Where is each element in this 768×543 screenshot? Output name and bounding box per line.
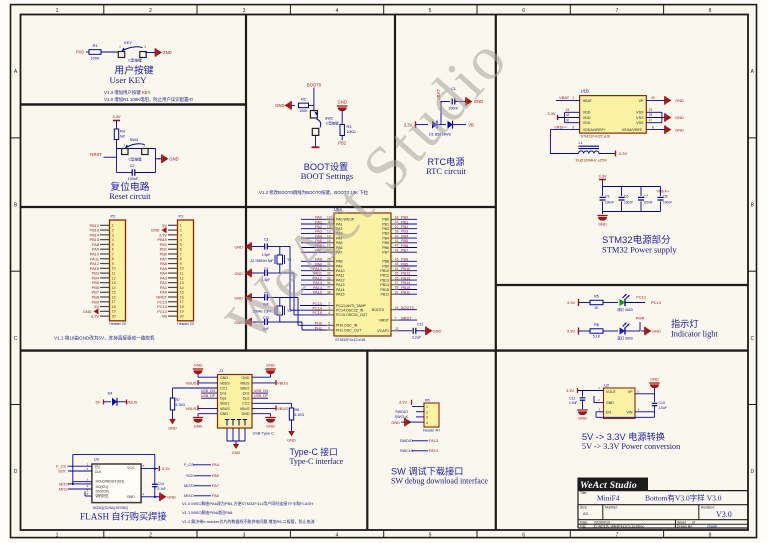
- svg-text:2: 2: [180, 228, 182, 232]
- svg-text:PB10: PB10: [401, 267, 410, 271]
- wire D4 to VBUS: [117, 401, 126, 403]
- svg-text:VREF+: VREF+: [554, 124, 568, 129]
- svg-text:43: 43: [395, 248, 399, 252]
- svg-text:3: 3: [243, 8, 246, 14]
- wire GND to R3: [341, 111, 343, 125]
- power symbol GND (C9): [253, 297, 265, 299]
- svg-text:4: 4: [180, 238, 182, 242]
- svg-text:1: 1: [56, 8, 59, 14]
- svg-text:48: 48: [566, 113, 570, 117]
- svg-text:D: D: [750, 469, 754, 475]
- svg-text:4: 4: [426, 421, 428, 425]
- svg-text:100nF: 100nF: [624, 201, 633, 205]
- svg-text:GND: GND: [578, 417, 587, 421]
- ic U5A left pin group PA0-PA7: [327, 218, 335, 220]
- svg-text:22: 22: [395, 327, 399, 331]
- wire cap bank top bus: [602, 180, 604, 197]
- svg-text:PB12: PB12: [401, 272, 410, 276]
- svg-text:Dn2: Dn2: [243, 392, 250, 396]
- svg-text:7: 7: [616, 532, 619, 538]
- wire to R5: [579, 302, 590, 304]
- svg-text:GND: GND: [162, 50, 171, 55]
- svg-text:VBUS: VBUS: [186, 406, 197, 411]
- svg-text:PA11: PA11: [336, 274, 344, 278]
- svg-text:VDD: VDD: [583, 116, 591, 120]
- svg-text:DO(IO1): DO(IO1): [96, 485, 108, 489]
- svg-text:C6: C6: [624, 195, 628, 199]
- svg-text:1.0uF: 1.0uF: [569, 401, 577, 405]
- svg-text:R1: R1: [92, 43, 98, 48]
- svg-text:C: C: [750, 336, 754, 342]
- svg-text:VBUS: VBUS: [277, 380, 288, 385]
- svg-text:PB15: PB15: [401, 286, 410, 290]
- wire 3.3V to R4: [116, 121, 118, 130]
- svg-text:V1.0 MISO脚由PA6改为PB4,方便STM32F41: V1.0 MISO脚由PA6改为PB4,方便STM32F411用户同时连接TF卡…: [182, 500, 313, 506]
- svg-text:4: 4: [336, 532, 339, 538]
- svg-text:U2: U2: [604, 383, 610, 388]
- svg-text:1: 1: [572, 96, 574, 100]
- power symbol GND (C3): [253, 246, 265, 248]
- svg-text:3: 3: [112, 233, 114, 237]
- wire reset loop right: [155, 149, 157, 173]
- resistor R5: [590, 300, 603, 304]
- svg-text:PB14: PB14: [401, 281, 410, 285]
- svg-text:12: 12: [112, 276, 116, 280]
- svg-text:9: 9: [112, 262, 114, 266]
- svg-text:PB5: PB5: [401, 239, 408, 243]
- svg-text:C3: C3: [264, 238, 269, 242]
- svg-text:SW3: SW3: [130, 138, 138, 142]
- svg-text:20: 20: [112, 315, 116, 319]
- wire R8 to GND: [291, 420, 293, 431]
- wire GND right row: [252, 376, 271, 378]
- svg-text:Title:: Title:: [580, 491, 587, 495]
- svg-text:GND: GND: [242, 376, 250, 380]
- svg-text:42: 42: [395, 244, 399, 248]
- resistor R3: [340, 125, 344, 136]
- svg-text:PC13: PC13: [636, 296, 646, 300]
- capacitor C12 reg: [582, 391, 584, 397]
- pin 8 VSSA wire: [646, 129, 663, 131]
- wire R7 to GND: [172, 410, 174, 419]
- svg-text:PA12: PA12: [336, 278, 345, 282]
- svg-text:PC15.OSC32_OUT: PC15.OSC32_OUT: [336, 313, 368, 317]
- svg-text:C14: C14: [158, 482, 164, 486]
- svg-text:WP(IO2): WP(IO2): [96, 494, 109, 498]
- svg-text:100nF: 100nF: [128, 177, 139, 181]
- switch SW3: [122, 149, 128, 155]
- svg-text:18: 18: [180, 305, 184, 309]
- capacitor C2: [131, 169, 133, 176]
- svg-text:GND: GND: [675, 127, 684, 132]
- wire loop to GND: [156, 158, 161, 160]
- wire VREF+ down to L1: [549, 130, 551, 154]
- wire R4 down to loop: [116, 140, 118, 149]
- svg-text:Header 4H: Header 4H: [423, 429, 440, 433]
- wire CC1 to R7: [173, 387, 218, 389]
- wire GND pin2: [594, 402, 604, 404]
- svg-text:2: 2: [112, 228, 114, 232]
- svg-text:F_CS: F_CS: [184, 463, 194, 467]
- svg-text:PB6: PB6: [401, 244, 408, 248]
- svg-text:36: 36: [566, 118, 570, 122]
- svg-text:5: 5: [180, 243, 182, 247]
- power symbol GND (reset): [161, 155, 163, 163]
- svg-text:P6: P6: [425, 399, 430, 403]
- section divider: vertical between BOOT and RTC: [394, 15, 396, 208]
- svg-text:11: 11: [112, 272, 116, 276]
- svg-text:12: 12: [180, 276, 184, 280]
- svg-text:2.2uF: 2.2uF: [412, 336, 422, 340]
- svg-text:GND: GND: [127, 495, 135, 499]
- svg-text:6: 6: [328, 326, 330, 330]
- svg-text:GND: GND: [391, 420, 400, 425]
- svg-text:100nF: 100nF: [644, 201, 653, 205]
- svg-text:NRST: NRST: [401, 316, 412, 320]
- svg-text:5: 5: [328, 322, 330, 326]
- svg-text:PH0.OSC_IN: PH0.OSC_IN: [336, 324, 358, 328]
- wire PA0 to R1: [86, 51, 89, 53]
- svg-text:PC13.ANTI_TAMP: PC13.ANTI_TAMP: [336, 304, 366, 308]
- power symbol GND (led2): [644, 327, 646, 335]
- svg-text:C2: C2: [130, 164, 135, 168]
- power symbol GND (R8): [288, 431, 294, 437]
- svg-text:19: 19: [180, 310, 184, 314]
- diode D1: [432, 121, 437, 129]
- svg-text:3.3V: 3.3V: [598, 174, 607, 179]
- power symbol GND (R7): [169, 419, 175, 425]
- svg-text:3: 3: [180, 233, 182, 237]
- wire pin9: [550, 129, 579, 131]
- svg-text:V1.1 MISO脚由PB4改回PA6: V1.1 MISO脚由PB4改回PA6: [182, 509, 233, 515]
- svg-text:Revision:: Revision:: [701, 506, 715, 510]
- svg-text:VIN: VIN: [627, 411, 633, 415]
- capacitor C3: [264, 244, 266, 250]
- wire C11 to GND: [416, 330, 424, 332]
- svg-text:C5: C5: [605, 195, 609, 199]
- svg-text:2: 2: [426, 410, 428, 414]
- capacitor C8: [658, 196, 664, 198]
- wire KEY to GND: [145, 52, 153, 54]
- svg-text:17: 17: [112, 300, 116, 304]
- svg-text:GND: GND: [232, 451, 241, 455]
- power symbol GND (C10): [253, 321, 265, 323]
- svg-text:VSS: VSS: [636, 111, 644, 115]
- wire flash top loop: [73, 453, 155, 455]
- svg-text:VBAT: VBAT: [559, 95, 570, 100]
- ic U5A right pin NRST: [391, 319, 399, 321]
- power symbol GND down (boot switch): [312, 146, 320, 148]
- diode D4: [112, 398, 117, 406]
- svg-text:PB8: PB8: [382, 260, 389, 264]
- section divider: vertical at x=496 full height: [495, 15, 497, 531]
- svg-text:PH1.OSC_OUT: PH1.OSC_OUT: [336, 328, 362, 332]
- svg-text:Type-C 接口: Type-C 接口: [290, 446, 338, 457]
- svg-text:MOSI: MOSI: [59, 482, 69, 486]
- svg-text:VBUS: VBUS: [186, 380, 197, 385]
- svg-text:USB Type-C: USB Type-C: [253, 431, 275, 436]
- svg-text:VREF+: VREF+: [656, 189, 670, 194]
- svg-text:PB0: PB0: [401, 216, 408, 220]
- svg-text:1: 1: [426, 405, 428, 409]
- svg-text:5.1K: 5.1K: [593, 335, 601, 339]
- svg-text:PB14: PB14: [380, 283, 389, 287]
- svg-text:C13: C13: [659, 401, 665, 405]
- power symbol GND (C4): [253, 272, 265, 274]
- wire LED1 to PC13: [625, 302, 645, 304]
- svg-text:USB_DP: USB_DP: [201, 394, 216, 398]
- ic U5A left pin group PH0 PH1: [327, 324, 335, 326]
- wire BOOT0 down: [313, 88, 315, 111]
- svg-text:3.3V: 3.3V: [619, 151, 628, 156]
- svg-text:GND: GND: [287, 439, 296, 443]
- net label USB_DN USB_DP left: [201, 392, 218, 394]
- svg-text:V3.0: V3.0: [716, 510, 732, 519]
- svg-text:FLASH 自行购买焊接: FLASH 自行购买焊接: [80, 511, 167, 522]
- svg-text:100nF: 100nF: [663, 201, 672, 205]
- svg-text:7: 7: [395, 316, 397, 320]
- ic U5A right pin VCAP1: [391, 330, 399, 332]
- svg-text:BOOT0: BOOT0: [372, 308, 384, 312]
- svg-text:WeAct Studio: WeAct Studio: [580, 480, 637, 491]
- wire reset loop bottom right: [135, 172, 156, 174]
- capacitor C4: [264, 270, 266, 276]
- resistor R4: [114, 129, 118, 140]
- svg-text:GND: GND: [167, 495, 176, 500]
- wire reset loop left: [116, 149, 118, 173]
- svg-text:Indicator light: Indicator light: [671, 330, 718, 339]
- svg-text:PA5: PA5: [212, 474, 219, 478]
- svg-text:U3: U3: [94, 457, 100, 462]
- svg-text:VP: VP: [639, 99, 644, 103]
- svg-text:PA7: PA7: [212, 484, 219, 488]
- svg-text:8: 8: [709, 8, 712, 14]
- power symbol 3.3V (flash): [158, 466, 160, 471]
- svg-text:27: 27: [395, 281, 399, 285]
- svg-text:PB10: PB10: [380, 269, 389, 273]
- power symbol GND (cap bank): [602, 212, 604, 215]
- svg-text:5.1KΩ: 5.1KΩ: [176, 403, 186, 407]
- svg-text:Reset circuit: Reset circuit: [109, 192, 151, 201]
- svg-text:16: 16: [180, 295, 184, 299]
- led PWR blue: [620, 327, 626, 334]
- wire SW2 to GND: [315, 135, 317, 146]
- svg-text:7: 7: [112, 252, 114, 256]
- svg-text:VB: VB: [162, 314, 168, 319]
- svg-text:44: 44: [395, 306, 399, 310]
- power symbol 3.3V (reset): [113, 120, 120, 122]
- svg-text:26: 26: [395, 276, 399, 280]
- svg-text:1: 1: [180, 224, 182, 228]
- connector J1 USB Type-C body: [218, 375, 253, 429]
- svg-text:C11: C11: [417, 323, 423, 327]
- svg-text:4: 4: [112, 238, 114, 242]
- svg-text:CC1: CC1: [220, 386, 227, 390]
- svg-text:V1.3 增加用户按键 KEY: V1.3 增加用户按键 KEY: [104, 89, 151, 96]
- svg-text:GND: GND: [220, 412, 228, 416]
- svg-text:C: C: [14, 336, 18, 342]
- svg-text:5V: 5V: [94, 304, 99, 309]
- wire 3.3V to VOUT: [578, 390, 604, 392]
- wires Y2 to PH0 PH1: [267, 297, 280, 299]
- connector J1 shield marks: [225, 419, 229, 421]
- svg-text:GND: GND: [606, 401, 614, 405]
- svg-text:SW debug download interface: SW debug download interface: [391, 477, 488, 486]
- svg-text:3: 3: [243, 532, 246, 538]
- svg-text:GND: GND: [650, 377, 659, 382]
- svg-text:SWDIO: SWDIO: [400, 439, 413, 443]
- svg-text:BOOT0: BOOT0: [307, 83, 322, 88]
- svg-text:45: 45: [395, 258, 399, 262]
- svg-text:17: 17: [180, 300, 184, 304]
- svg-text:USB_DN: USB_DN: [201, 389, 216, 393]
- svg-text:MISO: MISO: [184, 494, 194, 498]
- svg-text:3.3V: 3.3V: [547, 111, 556, 116]
- wire GND pin flash: [141, 496, 158, 498]
- svg-text:GND: GND: [220, 376, 228, 380]
- svg-text:R8: R8: [295, 408, 300, 412]
- power symbol GND (typec bot-right): [265, 417, 275, 419]
- svg-text:0.1uF: 0.1uF: [158, 487, 166, 491]
- wire LED2 to GND: [625, 330, 640, 332]
- svg-text:6: 6: [180, 248, 182, 252]
- wire VCAP1 to C11: [399, 330, 413, 332]
- wires VSS pins: [646, 117, 663, 119]
- svg-text:2: 2: [328, 302, 330, 306]
- svg-text:1: 1: [56, 532, 59, 538]
- net label USB_DN USB_DP right: [252, 392, 268, 394]
- svg-text:PB8: PB8: [401, 258, 408, 262]
- svg-text:PB15: PB15: [380, 288, 389, 292]
- svg-text:41: 41: [395, 239, 399, 243]
- svg-text:PA13: PA13: [429, 439, 438, 443]
- svg-text:PB7: PB7: [401, 249, 408, 253]
- wire reset loop top: [117, 148, 156, 150]
- svg-text:Bottom有V3.0字样 V3.0: Bottom有V3.0字样 V3.0: [645, 493, 722, 503]
- svg-text:L1: L1: [579, 141, 583, 145]
- svg-text:1.0uF: 1.0uF: [659, 406, 667, 410]
- power symbol GND (vssa): [664, 125, 666, 133]
- crystal Y1: [277, 255, 283, 264]
- power symbol GND (vcap): [425, 327, 427, 335]
- svg-text:PB7: PB7: [382, 251, 389, 255]
- svg-text:SBU1: SBU1: [220, 402, 229, 406]
- svg-text:EN: EN: [606, 411, 611, 415]
- svg-text:5: 5: [429, 532, 432, 538]
- section divider: horizontal under middle band: [21, 349, 749, 351]
- svg-text:C型按键: C型按键: [128, 58, 142, 63]
- title block table lines: [578, 490, 748, 492]
- connector P6 body: [424, 403, 439, 427]
- ic U3 flash body: [92, 464, 141, 503]
- svg-text:PC14.OSC32_IN: PC14.OSC32_IN: [336, 309, 364, 313]
- svg-text:Size:: Size:: [580, 506, 588, 510]
- capacitor C11: [412, 328, 414, 334]
- svg-text:VBUS: VBUS: [220, 381, 230, 385]
- svg-text:MISO: MISO: [59, 487, 69, 491]
- power symbol GND (vss): [664, 113, 666, 121]
- svg-text:7: 7: [180, 252, 182, 256]
- wire GND left row: [198, 376, 218, 378]
- svg-text:PB12: PB12: [380, 274, 389, 278]
- svg-text:3.3V: 3.3V: [162, 466, 170, 471]
- wire R6 to LED2: [603, 330, 618, 332]
- wire NRST to loop left: [104, 156, 117, 158]
- svg-text:GND: GND: [275, 103, 284, 108]
- svg-text:4: 4: [328, 311, 330, 315]
- connector J1 shield stubs: [226, 428, 228, 441]
- power symbol GND (user key): [155, 48, 157, 56]
- ic U5A right pin group PB8-PB15: [391, 260, 399, 262]
- svg-text:8: 8: [709, 532, 712, 538]
- svg-text:V1.2 解决带e-marker芯片的数据线不能供电问题,增: V1.2 解决带e-marker芯片的数据线不能供电问题,增加R6.二极管，防止…: [182, 518, 315, 524]
- pin stub HOLD: [73, 481, 92, 483]
- svg-text:18: 18: [112, 305, 116, 309]
- wire 5V to D4: [104, 401, 111, 403]
- wire VBAT down to diodes: [440, 102, 442, 125]
- svg-text:PB2: PB2: [382, 227, 389, 231]
- wire L1 to 3.3V: [599, 153, 616, 155]
- svg-text:1K: 1K: [594, 306, 599, 310]
- wire D2 to VB: [453, 124, 467, 126]
- svg-text:PB4: PB4: [382, 236, 389, 240]
- svg-text:P2: P2: [111, 214, 117, 219]
- svg-text:User KEY: User KEY: [110, 75, 148, 85]
- svg-text:11: 11: [180, 272, 184, 276]
- svg-text:STM32 Power supply: STM32 Power supply: [602, 245, 677, 255]
- svg-text:PB11: PB11: [401, 291, 410, 295]
- svg-text:VBUS: VBUS: [277, 406, 288, 411]
- svg-text:MiniF4: MiniF4: [597, 494, 620, 503]
- capacitor C9: [264, 295, 266, 301]
- svg-text:PB5: PB5: [382, 241, 389, 245]
- wire C13 down: [654, 406, 656, 418]
- resistor R2: [299, 103, 309, 108]
- svg-text:14: 14: [180, 286, 184, 290]
- svg-text:5: 5: [112, 243, 114, 247]
- svg-text:HOLD/RESET(IO3): HOLD/RESET(IO3): [96, 480, 125, 484]
- svg-text:6: 6: [112, 248, 114, 252]
- ic U5A right pin group PB0-PB7: [391, 218, 399, 220]
- svg-text:VSS: VSS: [636, 116, 644, 120]
- svg-text:GND: GND: [598, 222, 607, 227]
- svg-text:VSS: VSS: [636, 121, 644, 125]
- svg-text:PA4: PA4: [212, 463, 219, 467]
- svg-text:GND: GND: [675, 115, 684, 120]
- svg-text:100K: 100K: [91, 57, 100, 61]
- svg-text:GND: GND: [194, 363, 203, 368]
- capacitor C10: [264, 319, 266, 325]
- svg-text:PA13: PA13: [336, 283, 345, 287]
- svg-text:25: 25: [395, 272, 399, 276]
- svg-text:4: 4: [336, 8, 339, 14]
- svg-text:SW 调试下载接口: SW 调试下载接口: [391, 466, 463, 477]
- svg-text:GND: GND: [194, 425, 203, 429]
- svg-text:10: 10: [180, 267, 184, 271]
- svg-text:PB9: PB9: [382, 264, 389, 268]
- svg-text:3: 3: [328, 306, 330, 310]
- svg-text:7: 7: [616, 8, 619, 14]
- svg-text:Drawn By:: Drawn By:: [677, 524, 693, 528]
- svg-text:GND: GND: [169, 157, 178, 162]
- section divider: vertical at x=246: [245, 15, 247, 351]
- wires VDD pins: [558, 117, 580, 119]
- crystal Y2: [277, 306, 283, 315]
- wire reset loop bottom left: [117, 172, 133, 174]
- power symbol GND (C12): [577, 409, 587, 411]
- svg-text:PB3: PB3: [382, 232, 389, 236]
- svg-text:GND: GND: [675, 98, 684, 103]
